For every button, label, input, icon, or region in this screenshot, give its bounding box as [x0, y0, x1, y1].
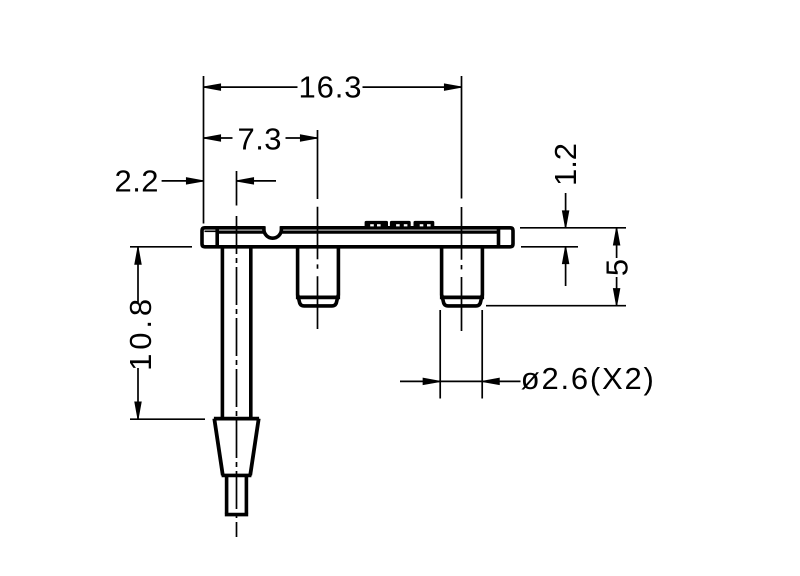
svg-text:16.3: 16.3 [299, 70, 362, 105]
svg-text:10.8: 10.8 [123, 299, 158, 371]
svg-text:5: 5 [599, 259, 634, 276]
svg-text:ø2.6(X2): ø2.6(X2) [521, 361, 654, 396]
svg-text:7.3: 7.3 [238, 121, 282, 156]
svg-text:1.2: 1.2 [548, 143, 583, 186]
svg-text:2.2: 2.2 [115, 163, 159, 198]
